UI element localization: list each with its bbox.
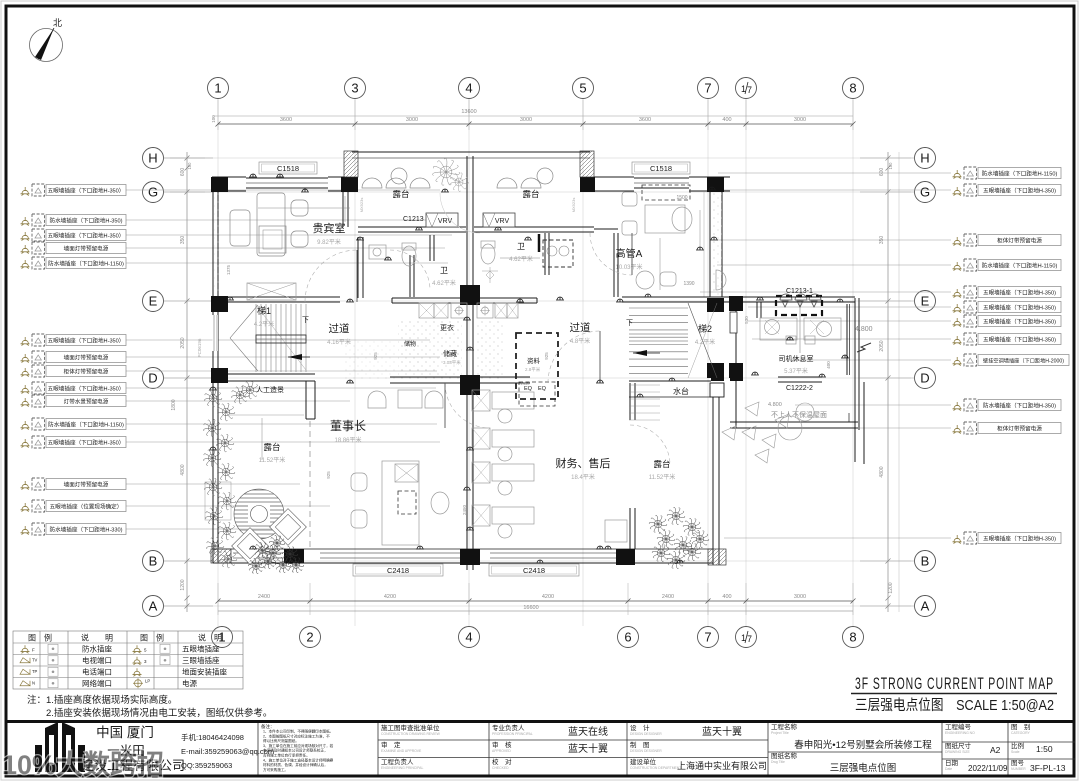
svg-text:Dwg Title: Dwg Title [771, 760, 785, 764]
svg-text:三眼墙插座: 三眼墙插座 [182, 655, 220, 665]
svg-text:7: 7 [704, 630, 711, 645]
svg-text:露台: 露台 [263, 442, 280, 452]
svg-text:制 图: 制 图 [630, 740, 650, 749]
svg-text:比例: 比例 [1011, 741, 1024, 750]
svg-text:壁挂空调墙插座（下口距地H-2000): 壁挂空调墙插座（下口距地H-2000) [983, 357, 1064, 365]
svg-text:400: 400 [826, 361, 831, 369]
svg-text:电视端口: 电视端口 [82, 655, 112, 665]
svg-text:3F-PL-13: 3F-PL-13 [1030, 763, 1066, 773]
svg-text:过道: 过道 [570, 321, 591, 334]
svg-text:4200: 4200 [542, 594, 554, 600]
svg-text:E: E [921, 294, 930, 309]
svg-text:校 对: 校 对 [492, 757, 512, 766]
svg-text:530: 530 [744, 316, 749, 324]
svg-text:EQ: EQ [538, 386, 547, 392]
svg-text:五眼墙插座（下口距地H-350）: 五眼墙插座（下口距地H-350） [48, 187, 125, 195]
svg-text:ENGINEERING NO: ENGINEERING NO [945, 731, 975, 735]
svg-text:五眼墙插座（下口距地H-350): 五眼墙插座（下口距地H-350) [983, 187, 1056, 195]
svg-text:10%大数跨招: 10%大数跨招 [2, 750, 164, 780]
svg-text:2022/11/09: 2022/11/09 [968, 764, 1008, 773]
svg-text:G: G [920, 185, 930, 200]
svg-text:8: 8 [849, 81, 856, 96]
svg-text:春申阳光•12号别墅会所装修工程: 春申阳光•12号别墅会所装修工程 [794, 739, 932, 751]
svg-text:下: 下 [302, 316, 309, 324]
svg-text:100: 100 [211, 115, 216, 123]
svg-text:18.86平米: 18.86平米 [334, 436, 361, 444]
svg-text:防水墙插座（下口距地H-350): 防水墙插座（下口距地H-350) [49, 217, 122, 225]
svg-text:1:50: 1:50 [1036, 744, 1053, 754]
svg-text:方可采购施工。: 方可采购施工。 [263, 767, 288, 772]
svg-text:3000: 3000 [406, 117, 418, 123]
svg-text:TV: TV [32, 657, 38, 662]
svg-text:卫: 卫 [440, 266, 448, 275]
svg-text:建设单位: 建设单位 [630, 757, 657, 766]
svg-text:说 明: 说 明 [81, 633, 113, 643]
svg-text:N: N [32, 680, 35, 685]
svg-text:3000: 3000 [520, 117, 532, 123]
svg-text:2450: 2450 [462, 504, 467, 515]
svg-text:E: E [149, 294, 158, 309]
svg-text:图 例: 图 例 [140, 633, 164, 643]
svg-text:中国 厦门: 中国 厦门 [96, 725, 154, 740]
svg-text:Scale: Scale [1011, 750, 1020, 754]
svg-text:APPROVED: APPROVED [492, 749, 511, 753]
svg-text:4.62平米: 4.62平米 [432, 279, 456, 287]
svg-text:图纸尺寸: 图纸尺寸 [945, 741, 972, 750]
svg-text:五眼墙插座（下口距地H-350): 五眼墙插座（下口距地H-350) [983, 318, 1056, 326]
svg-text:100: 100 [187, 162, 192, 170]
svg-text:Date: Date [945, 767, 952, 771]
svg-text:PROFESSION PRINCIPAL: PROFESSION PRINCIPAL [492, 732, 533, 736]
svg-text:设 计: 设 计 [630, 723, 650, 732]
svg-text:1390: 1390 [683, 281, 694, 287]
svg-text:3600: 3600 [280, 117, 292, 123]
svg-text:1375: 1375 [226, 264, 231, 275]
svg-text:五眼墙插座（下口距地H-350): 五眼墙插座（下口距地H-350) [983, 289, 1056, 297]
svg-text:施工图审查批准单位: 施工图审查批准单位 [381, 723, 440, 732]
svg-text:水台: 水台 [673, 386, 689, 396]
svg-text:五眼墙插座: 五眼墙插座 [182, 644, 220, 654]
svg-text:7: 7 [747, 634, 752, 644]
svg-text:柜体灯带预留电源: 柜体灯带预留电源 [64, 368, 109, 376]
svg-text:925: 925 [326, 471, 331, 479]
svg-text:专业负责人: 专业负责人 [492, 723, 525, 732]
svg-text:EQ: EQ [524, 386, 533, 392]
svg-text:MX923s: MX923s [359, 198, 364, 213]
svg-text:工程名称: 工程名称 [771, 722, 798, 731]
svg-text:下: 下 [626, 319, 633, 327]
svg-text:材料的材质、色调，并经设计师确认后，: 材料的材质、色调，并经设计师确认后， [263, 762, 328, 767]
svg-text:350: 350 [180, 236, 186, 245]
svg-text:蓝天十翼: 蓝天十翼 [702, 725, 742, 738]
svg-text:露台: 露台 [522, 189, 539, 199]
svg-text:4800: 4800 [180, 464, 186, 475]
svg-text:三层强电点位图 SCALE 1:50@A2: 三层强电点位图 SCALE 1:50@A2 [855, 697, 1054, 714]
svg-text:600: 600 [879, 168, 885, 177]
svg-text:C1222-2: C1222-2 [786, 385, 813, 392]
svg-text:F: F [32, 647, 35, 652]
svg-text:蓝天十翼: 蓝天十翼 [568, 742, 608, 755]
svg-text:电源: 电源 [182, 678, 197, 688]
svg-text:6: 6 [624, 630, 631, 645]
svg-text:3: 3 [351, 81, 358, 96]
svg-text:司机休息室: 司机休息室 [779, 354, 814, 363]
svg-text:400: 400 [722, 117, 731, 123]
svg-text:五眼墙插座（下口距地H-350): 五眼墙插座（下口距地H-350) [983, 535, 1056, 543]
svg-text:400: 400 [722, 594, 731, 600]
svg-text:防水墙插座（下口距地H-1150): 防水墙插座（下口距地H-1150) [48, 421, 124, 429]
svg-text:TP: TP [32, 669, 38, 674]
svg-text:16600: 16600 [523, 605, 538, 611]
svg-text:卫: 卫 [517, 242, 525, 251]
svg-text:NUMBER: NUMBER [1011, 767, 1026, 771]
svg-text:五眼墙插座（下口距地H-350): 五眼墙插座（下口距地H-350) [983, 304, 1056, 312]
svg-text:11.52平米: 11.52平米 [649, 473, 676, 481]
svg-text:4.800: 4.800 [855, 326, 873, 333]
svg-text:墙面灯带预留电源: 墙面灯带预留电源 [64, 245, 109, 253]
svg-text:PC0619n: PC0619n [197, 338, 202, 357]
svg-text:五眼墙插座（下口距地H-350）: 五眼墙插座（下口距地H-350） [48, 385, 125, 393]
svg-text:图 例: 图 例 [28, 633, 52, 643]
svg-text:五眼墙插座（下口距地H-350): 五眼墙插座（下口距地H-350) [983, 336, 1056, 344]
svg-text:灯带水景预留电源: 灯带水景预留电源 [64, 398, 109, 406]
svg-text:1: 1 [214, 81, 221, 96]
svg-text:D: D [148, 371, 157, 386]
svg-text:审 核: 审 核 [492, 740, 512, 749]
svg-text:防水墙插座（下口距地H-330): 防水墙插座（下口距地H-330) [49, 526, 122, 534]
svg-text:4.62平米: 4.62平米 [509, 255, 533, 263]
svg-text:B: B [921, 554, 930, 569]
svg-text:925: 925 [544, 352, 549, 360]
svg-text:B: B [149, 554, 158, 569]
svg-text:2、本图按图纸尺寸对应标注施工为准，不: 2、本图按图纸尺寸对应标注施工为准，不 [263, 733, 330, 738]
svg-text:C1213: C1213 [403, 216, 424, 223]
svg-text:地面安装插座: 地面安装插座 [182, 667, 227, 677]
svg-text:柜体灯带预留电源: 柜体灯带预留电源 [997, 425, 1042, 433]
svg-text:1: 1 [741, 84, 746, 94]
svg-text:防水插座: 防水插座 [82, 644, 112, 654]
svg-text:露台: 露台 [653, 459, 670, 469]
svg-text:手机:18046424098: 手机:18046424098 [181, 732, 244, 742]
svg-text:7: 7 [704, 81, 711, 96]
svg-text:墙面灯带预留电源: 墙面灯带预留电源 [64, 481, 109, 489]
svg-text:日期: 日期 [945, 759, 959, 767]
svg-text:防水墙插座（下口距地H-1150): 防水墙插座（下口距地H-1150) [48, 260, 124, 268]
svg-text:VRV: VRV [438, 218, 453, 225]
svg-text:E-mail:359259063@qq.com: E-mail:359259063@qq.com [181, 747, 274, 756]
svg-text:4800: 4800 [879, 466, 885, 477]
svg-text:三层强电点位图: 三层强电点位图 [830, 762, 897, 774]
svg-text:2050: 2050 [180, 337, 186, 348]
svg-text:VRV: VRV [495, 218, 510, 225]
svg-text:五眼地插座（位置现场确定）: 五眼地插座（位置现场确定） [50, 503, 123, 511]
svg-text:防水墙插座（下口距地H-1150): 防水墙插座（下口距地H-1150) [982, 262, 1058, 270]
svg-text:2400: 2400 [662, 594, 674, 600]
svg-text:A2: A2 [990, 745, 1001, 755]
svg-text:CONSTRUCTION DEPARTMENT: CONSTRUCTION DEPARTMENT [630, 766, 681, 770]
svg-text:MX923s: MX923s [571, 198, 576, 213]
svg-text:4: 4 [465, 81, 472, 96]
svg-text:C1518: C1518 [650, 164, 672, 173]
svg-text:过道: 过道 [329, 322, 350, 335]
svg-text:2: 2 [306, 630, 313, 645]
svg-text:审 定: 审 定 [381, 740, 401, 749]
svg-text:1: 1 [741, 633, 746, 643]
svg-text:5.37平米: 5.37平米 [784, 367, 808, 375]
svg-text:G: G [148, 185, 158, 200]
svg-text:工程编号: 工程编号 [945, 722, 972, 731]
svg-text:DRAWING SIZE: DRAWING SIZE [945, 750, 970, 754]
svg-text:电话端口: 电话端口 [82, 667, 112, 677]
svg-text:A: A [921, 599, 930, 614]
svg-text:3600: 3600 [639, 117, 651, 123]
svg-text:2050: 2050 [879, 340, 885, 351]
svg-text:4.2平米: 4.2平米 [254, 320, 274, 328]
svg-text:资料: 资料 [527, 356, 541, 365]
svg-text:注：1.插座高度依据现场实际高度。: 注：1.插座高度依据现场实际高度。 [27, 694, 177, 706]
svg-text:图号: 图号 [1011, 759, 1025, 767]
svg-text:4、施工单位对于施工途径基本设计师明确察: 4、施工单位对于施工途径基本设计师明确察 [263, 757, 334, 762]
svg-text:D: D [920, 371, 929, 386]
svg-text:9.82平米: 9.82平米 [317, 238, 341, 246]
svg-text:上海通中实业有限公司: 上海通中实业有限公司 [677, 760, 767, 771]
svg-text:梯2: 梯2 [698, 323, 712, 334]
svg-text:柜体灯带预留电源: 柜体灯带预留电源 [997, 237, 1042, 245]
svg-text:露台: 露台 [392, 189, 409, 199]
svg-text:C2418: C2418 [387, 566, 409, 575]
svg-text:2400: 2400 [258, 594, 270, 600]
svg-text:3000: 3000 [794, 117, 806, 123]
svg-text:董事长: 董事长 [330, 419, 366, 433]
svg-text:高管A: 高管A [616, 247, 643, 260]
svg-text:2.插座安装依据现场情况由电工安装，图纸仅供参考。: 2.插座安装依据现场情况由电工安装，图纸仅供参考。 [46, 707, 272, 719]
svg-text:5: 5 [579, 81, 586, 96]
svg-text:CATEGORY: CATEGORY [1011, 731, 1030, 735]
svg-text:DESIGN DESIGNER: DESIGN DESIGNER [630, 732, 662, 736]
svg-text:100: 100 [888, 162, 893, 170]
svg-text:五眼墙插座（下口距地H-350）: 五眼墙插座（下口距地H-350） [48, 439, 125, 447]
svg-text:4: 4 [465, 630, 472, 645]
svg-text:网络端口: 网络端口 [82, 678, 112, 688]
svg-text:DESIGN DESIGNER: DESIGN DESIGNER [630, 749, 662, 753]
svg-text:得以比例尺测量图纸。: 得以比例尺测量图纸。 [263, 738, 299, 743]
svg-text:蓝天在线: 蓝天在线 [568, 725, 608, 738]
svg-text:ENGINEERING PRINCIPAL: ENGINEERING PRINCIPAL [381, 766, 423, 770]
svg-text:4200: 4200 [384, 594, 396, 600]
svg-text:11.52平米: 11.52平米 [259, 456, 286, 464]
svg-text:贵宾室: 贵宾室 [313, 221, 346, 235]
svg-text:4.8平米: 4.8平米 [570, 337, 590, 345]
svg-text:五眼墙插座（下口距地H-350）: 五眼墙插座（下口距地H-350） [48, 232, 125, 240]
svg-text:CHECKED: CHECKED [492, 766, 509, 770]
svg-text:CONSTRUCTION DRAWING REVIEW: CONSTRUCTION DRAWING REVIEW [381, 732, 441, 736]
svg-text:北: 北 [53, 18, 62, 28]
svg-text:人工造景: 人工造景 [256, 385, 284, 394]
svg-text:8: 8 [849, 630, 856, 645]
svg-text:H: H [148, 151, 157, 166]
svg-text:工程负责人: 工程负责人 [381, 757, 414, 766]
svg-text:2.8平米: 2.8平米 [525, 366, 541, 373]
svg-text:10.03平米: 10.03平米 [615, 263, 642, 271]
svg-text:H: H [920, 151, 929, 166]
svg-text:4.800: 4.800 [768, 402, 782, 408]
svg-text:图纸名称: 图纸名称 [771, 751, 798, 760]
svg-text:LP: LP [145, 678, 150, 683]
svg-text:3000: 3000 [794, 594, 806, 600]
svg-text:墙面灯带预留电源: 墙面灯带预留电源 [64, 354, 109, 362]
svg-text:Project Title: Project Title [771, 731, 789, 735]
svg-text:QQ:359259063: QQ:359259063 [181, 761, 232, 770]
svg-text:7: 7 [747, 85, 752, 95]
svg-text:不上人不保温屋面: 不上人不保温屋面 [771, 410, 827, 419]
svg-text:13600: 13600 [461, 109, 476, 115]
svg-text:1200: 1200 [180, 579, 186, 590]
svg-text:财务、售后: 财务、售后 [556, 456, 611, 470]
svg-text:1、本件本公司印制，不得随便翻印本图纸。: 1、本件本公司印制，不得随便翻印本图纸。 [263, 729, 333, 734]
svg-text:1200: 1200 [888, 582, 894, 593]
svg-text:图 别: 图 别 [1011, 722, 1031, 731]
svg-text:A: A [149, 599, 158, 614]
svg-text:防水墙插座（下口距地H-350): 防水墙插座（下口距地H-350) [983, 402, 1056, 410]
svg-text:EXAMINE AND APPROVE: EXAMINE AND APPROVE [381, 749, 422, 753]
svg-text:600: 600 [180, 168, 186, 177]
svg-text:18.4平米: 18.4平米 [571, 473, 595, 481]
svg-text:C1518: C1518 [277, 164, 299, 173]
svg-text:3F STRONG CURRENT POINT MAP: 3F STRONG CURRENT POINT MAP [855, 675, 1054, 693]
svg-text:说 明: 说 明 [198, 633, 222, 643]
svg-text:五眼墙插座（下口距地H-350）: 五眼墙插座（下口距地H-350） [48, 337, 125, 345]
svg-text:4.2平米: 4.2平米 [695, 338, 715, 346]
svg-text:C2418: C2418 [523, 566, 545, 575]
svg-text:梯1: 梯1 [257, 305, 271, 316]
svg-text:防水墙插座（下口距地H-1150): 防水墙插座（下口距地H-1150) [982, 170, 1058, 178]
